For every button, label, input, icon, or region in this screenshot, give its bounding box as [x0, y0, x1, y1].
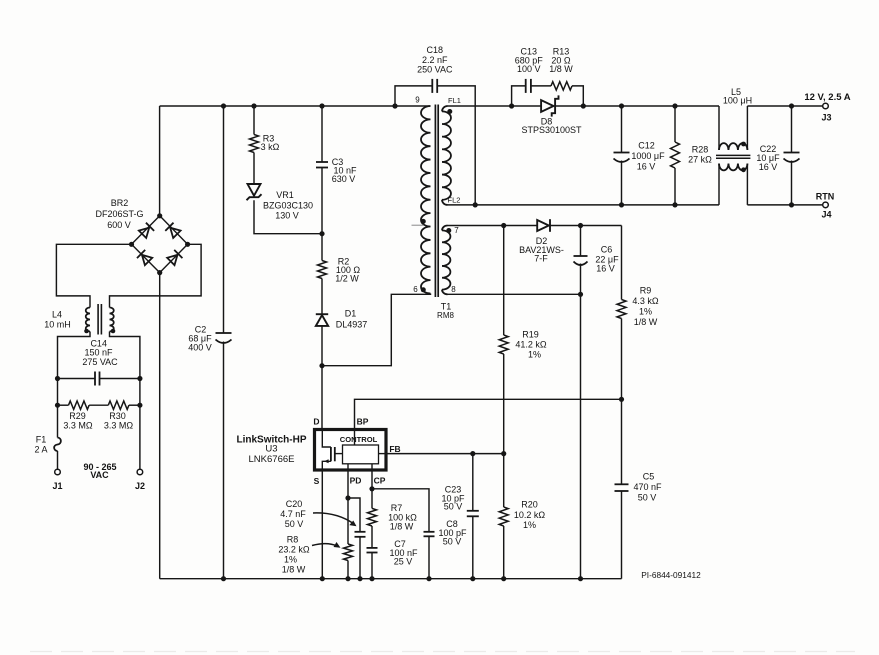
node out / snubber right	[581, 103, 586, 108]
node top bus / C3	[319, 103, 324, 108]
U3 FB internal wire	[379, 453, 387, 455]
wire S pin to ground	[321, 471, 323, 579]
node out / R28	[672, 103, 677, 108]
capacitor C23	[441, 454, 478, 579]
U3 pin label CP	[374, 476, 386, 486]
inductor L4	[44, 304, 115, 335]
node C18 / FL2 rail	[473, 202, 478, 207]
svg-text:CONTROL: CONTROL	[340, 435, 378, 444]
svg-text:D1: D1	[345, 309, 357, 319]
svg-text:1000 μF: 1000 μF	[631, 151, 665, 161]
svg-text:1/8 W: 1/8 W	[634, 317, 658, 327]
svg-text:6: 6	[413, 285, 418, 294]
wire R3-VR1	[253, 153, 255, 185]
wire bridge AC left	[56, 244, 131, 307]
wire bridge AC right	[110, 244, 202, 307]
svg-text:STPS30100ST: STPS30100ST	[521, 125, 582, 135]
node top bus / R3	[251, 103, 256, 108]
resistor R7	[368, 489, 418, 532]
T1 pin label 7	[454, 226, 459, 235]
wire VR1 to node	[254, 200, 322, 234]
capacitor C8	[372, 489, 467, 579]
wire D1 to drain node	[321, 326, 323, 366]
T1 pin label 9	[415, 96, 420, 105]
svg-text:7-F: 7-F	[534, 254, 548, 264]
resistor R8	[278, 498, 352, 579]
wire FL2 rail	[448, 204, 720, 206]
label 12V output	[804, 92, 850, 103]
wire bridge- to ground bus	[159, 273, 161, 579]
svg-text:R30: R30	[109, 411, 126, 421]
svg-text:150 nF: 150 nF	[84, 348, 113, 358]
U3 ref label	[236, 435, 306, 466]
svg-text:R8: R8	[287, 535, 299, 545]
svg-text:10 mH: 10 mH	[44, 320, 71, 330]
bridge rectifier BR2	[95, 198, 190, 275]
node PD junction	[345, 495, 350, 500]
terminal J3	[821, 103, 831, 122]
node out / C22	[789, 103, 794, 108]
node rtn / C12	[619, 202, 624, 207]
node gnd / C7	[369, 576, 374, 581]
wire drain to U3 D pin	[321, 366, 323, 430]
U3 pin label BP	[357, 417, 369, 427]
wire ground bus	[160, 578, 622, 580]
label PI number	[641, 570, 701, 580]
svg-text:CP: CP	[374, 476, 386, 486]
capacitor C12	[614, 106, 666, 205]
T1 polarity dot FL1	[447, 109, 452, 114]
wire L4 right down	[110, 332, 140, 379]
U3 pin label S	[314, 476, 320, 486]
arrow C20 label	[313, 513, 357, 526]
svg-text:J4: J4	[821, 210, 831, 220]
svg-text:C12: C12	[638, 141, 655, 151]
svg-text:L4: L4	[52, 310, 62, 320]
wire PD down	[347, 471, 349, 499]
capacitor C18	[417, 45, 453, 93]
diode D2	[519, 219, 564, 263]
wire FL1 rail	[448, 105, 542, 107]
wire C3-R2	[321, 168, 323, 261]
node CP junction	[369, 486, 374, 491]
svg-text:VAC: VAC	[90, 470, 109, 480]
resistor R28	[671, 106, 713, 205]
node BP / C5 / R9	[619, 397, 624, 402]
wire fuse to J1	[57, 451, 59, 469]
svg-text:3 kΩ: 3 kΩ	[261, 142, 280, 152]
resistor R2	[318, 257, 361, 284]
wire pin8 rail	[448, 293, 581, 295]
svg-text:470 nF: 470 nF	[633, 482, 662, 492]
svg-text:R9: R9	[640, 286, 652, 296]
node C14 left	[55, 376, 60, 381]
U3 CP internal wire	[371, 464, 373, 469]
svg-text:J3: J3	[821, 113, 831, 123]
diode D1	[316, 309, 367, 330]
U3 BP internal wire	[354, 431, 356, 445]
capacitor C2	[188, 325, 231, 353]
U3 pin label D	[313, 417, 319, 427]
svg-text:RM8: RM8	[437, 311, 454, 320]
svg-text:100 μH: 100 μH	[723, 96, 752, 106]
label 90-265 VAC	[83, 462, 116, 480]
svg-text:R20: R20	[521, 500, 538, 510]
svg-text:10.2 kΩ: 10.2 kΩ	[514, 510, 546, 520]
wire R29-R30	[89, 404, 108, 406]
svg-text:100 V: 100 V	[517, 64, 541, 74]
svg-text:50 V: 50 V	[638, 493, 657, 503]
wire D2 to corner	[550, 225, 622, 227]
capacitor C14	[58, 339, 140, 386]
T1 polarity dot pin6	[421, 287, 426, 292]
wire C3 top	[321, 106, 323, 162]
wire C14 to R29 line left	[57, 379, 59, 406]
svg-text:2.2 nF: 2.2 nF	[422, 55, 448, 65]
capacitor C7	[367, 526, 419, 579]
svg-text:3.3 MΩ: 3.3 MΩ	[63, 421, 93, 431]
T1 ref label	[437, 302, 454, 321]
svg-text:U3: U3	[265, 444, 277, 455]
wire C6 bottom to ground	[580, 294, 582, 578]
svg-text:4.7 nF: 4.7 nF	[280, 509, 306, 519]
svg-text:D: D	[313, 417, 319, 427]
transformer T1 bias winding 7-8	[442, 226, 450, 295]
U3 internal MOSFET	[322, 431, 342, 469]
wire C14 to R30 line right	[139, 379, 141, 406]
resistor R9	[617, 226, 659, 400]
svg-text:25 V: 25 V	[394, 557, 413, 567]
U3 CONTROL block	[340, 435, 379, 464]
svg-text:12 V, 2.5 A: 12 V, 2.5 A	[804, 92, 850, 103]
svg-text:1/8 W: 1/8 W	[549, 64, 573, 74]
arrow R8 label	[312, 542, 341, 548]
svg-text:BZG03C130: BZG03C130	[263, 201, 313, 211]
capacitor C20	[280, 498, 365, 579]
node gnd / C20	[357, 576, 362, 581]
inductor L5	[716, 87, 752, 205]
svg-text:RTN: RTN	[816, 191, 835, 201]
resistor R20	[499, 454, 545, 579]
wire top DC bus	[160, 105, 431, 107]
U3 pin label FB	[389, 444, 400, 454]
svg-text:23.2 kΩ: 23.2 kΩ	[278, 545, 310, 555]
capacitor C22	[756, 106, 799, 205]
node top bus / C2	[221, 103, 226, 108]
wire pin6 to drain node	[322, 294, 431, 366]
wire L4 left down	[58, 332, 91, 379]
wire R2-D1	[321, 279, 323, 315]
node gnd / S	[320, 576, 325, 581]
svg-text:1%: 1%	[284, 555, 297, 565]
svg-text:400 V: 400 V	[188, 343, 212, 353]
svg-text:DL4937: DL4937	[336, 320, 368, 330]
node rtn / C22	[789, 202, 794, 207]
svg-text:S: S	[314, 476, 320, 486]
node gnd / R8	[345, 576, 350, 581]
node gnd / C2	[221, 576, 226, 581]
svg-text:275 VAC: 275 VAC	[82, 357, 118, 367]
svg-text:T1: T1	[441, 302, 452, 312]
fuse F1	[34, 435, 60, 455]
node C14 right	[137, 376, 142, 381]
svg-text:1%: 1%	[523, 520, 536, 530]
svg-text:630 V: 630 V	[332, 174, 356, 184]
svg-text:16 V: 16 V	[596, 264, 615, 274]
terminal J1	[52, 469, 62, 491]
svg-text:R28: R28	[692, 145, 709, 155]
svg-text:LNK6766E: LNK6766E	[249, 454, 295, 465]
svg-text:7: 7	[454, 226, 459, 235]
svg-text:1/8 W: 1/8 W	[282, 565, 306, 575]
svg-text:PD: PD	[350, 476, 362, 486]
svg-text:3.3 MΩ: 3.3 MΩ	[104, 421, 134, 431]
diode D8	[521, 95, 582, 135]
svg-text:41.2 kΩ: 41.2 kΩ	[515, 340, 547, 350]
wire L5 out to J4	[747, 204, 822, 206]
node drain junction	[319, 363, 324, 368]
transformer T1 core	[435, 105, 438, 298]
svg-text:C18: C18	[427, 45, 444, 55]
capacitor C5	[615, 399, 663, 578]
svg-text:1/2 W: 1/2 W	[335, 274, 359, 284]
wire R3 top	[253, 106, 255, 135]
node R29 left	[55, 403, 60, 408]
svg-text:C20: C20	[286, 499, 303, 509]
svg-text:PI-6844-091412: PI-6844-091412	[641, 570, 701, 580]
node bias / C6	[578, 223, 583, 228]
terminal J2	[135, 469, 145, 491]
svg-text:16 V: 16 V	[759, 162, 778, 172]
node clamp junction	[319, 231, 324, 236]
resistor R3	[250, 134, 280, 153]
node FB / C23	[470, 451, 475, 456]
svg-text:600 V: 600 V	[107, 220, 131, 230]
terminal J4	[821, 202, 831, 219]
resistor R13 snubber	[531, 47, 583, 107]
capacitor C13 snubber	[512, 47, 544, 107]
svg-text:8: 8	[451, 285, 456, 294]
svg-text:9: 9	[415, 96, 420, 105]
svg-text:2 A: 2 A	[34, 445, 47, 455]
svg-text:FB: FB	[389, 444, 400, 454]
resistor R30	[104, 401, 140, 431]
svg-text:50 V: 50 V	[443, 536, 462, 546]
svg-text:FL2: FL2	[448, 196, 461, 205]
node FB / R19 / R20	[501, 451, 506, 456]
wire bridge+ to top bus	[159, 106, 161, 216]
transformer T1 primary winding	[421, 106, 431, 293]
node gnd / R20	[501, 576, 506, 581]
resistor R29	[58, 401, 93, 431]
svg-text:FL1: FL1	[448, 96, 461, 105]
node R30 right	[137, 403, 142, 408]
node top bus / C18	[392, 103, 397, 108]
op-amp U3 LinkSwitch-HP box	[315, 430, 387, 471]
capacitor C6	[574, 226, 620, 295]
svg-text:BR2: BR2	[111, 198, 129, 208]
capacitor C3	[316, 157, 357, 184]
node gnd / C6 return	[578, 576, 583, 581]
node gnd / C8	[426, 576, 431, 581]
diode VR1 zener	[247, 184, 314, 221]
wire D8 to L5	[555, 105, 719, 107]
node pin7 / R19	[501, 223, 506, 228]
svg-text:C6: C6	[601, 245, 613, 255]
U3 pin label PD	[350, 476, 362, 486]
svg-text:27 kΩ: 27 kΩ	[688, 155, 712, 165]
wire C18 right	[437, 86, 475, 205]
node out / C12	[619, 103, 624, 108]
wire L5 to J3	[747, 105, 822, 107]
wire C2 top	[223, 106, 225, 333]
T1 polarity dot primary	[412, 219, 426, 225]
T1 pin label FL2	[448, 196, 461, 205]
svg-text:DF206ST-G: DF206ST-G	[95, 209, 143, 219]
wire C2 bottom	[223, 342, 225, 579]
T1 pin label 6	[413, 285, 418, 294]
svg-text:250 VAC: 250 VAC	[417, 65, 453, 75]
svg-text:4.3 kΩ: 4.3 kΩ	[632, 296, 659, 306]
svg-text:1%: 1%	[639, 307, 652, 317]
svg-text:C5: C5	[643, 472, 655, 482]
node rtn / R28	[672, 202, 677, 207]
T1 polarity dot pin7	[446, 228, 451, 233]
label RTN	[816, 191, 835, 201]
wire CP down	[371, 471, 373, 489]
wire J2 rail	[139, 405, 141, 469]
svg-text:R29: R29	[69, 411, 86, 421]
svg-text:J2: J2	[135, 481, 145, 491]
svg-text:R7: R7	[391, 503, 403, 513]
svg-text:50 V: 50 V	[285, 519, 304, 529]
wire pin7 rail	[448, 225, 538, 227]
svg-text:1/8 W: 1/8 W	[390, 522, 414, 532]
U3 PD internal wire	[347, 464, 349, 469]
svg-text:J1: J1	[52, 481, 62, 491]
svg-text:16 V: 16 V	[637, 161, 656, 171]
wire BP to bypass	[355, 399, 622, 429]
T1 pin label 8	[451, 285, 456, 294]
resistor R19	[499, 226, 547, 454]
svg-text:130 V: 130 V	[275, 211, 299, 221]
svg-text:BP: BP	[357, 417, 369, 427]
svg-text:1%: 1%	[528, 350, 541, 360]
node FL1 / snubber	[509, 103, 514, 108]
svg-text:VR1: VR1	[276, 190, 294, 200]
wire FB line	[386, 453, 504, 455]
node gnd / C23	[470, 576, 475, 581]
faint scan artifact line	[30, 651, 855, 653]
svg-text:F1: F1	[36, 435, 47, 445]
svg-text:50 V: 50 V	[444, 502, 463, 512]
node pin8 / C6 bottom	[578, 292, 583, 297]
svg-text:R19: R19	[522, 330, 539, 340]
wire C18 left	[395, 86, 432, 106]
wire to fuse	[57, 405, 59, 437]
transformer T1 secondary FL1-FL2	[442, 106, 451, 205]
T1 pin label FL1	[448, 96, 461, 105]
